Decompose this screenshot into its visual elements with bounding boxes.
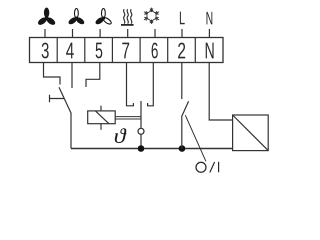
- terminal number 2: [178, 43, 185, 59]
- temperature sensor bellows box: [88, 111, 116, 124]
- fan selector switch blade: [59, 87, 71, 148]
- terminal top stubs: [45, 29, 209, 38]
- bellows diagonal: [95, 111, 109, 124]
- on-off switch actuator link: [185, 115, 206, 161]
- fan icon high speed (terminal 3): [37, 8, 57, 27]
- junction node below on-off switch: [179, 145, 186, 152]
- mechanical linkage double line: [115, 117, 141, 119]
- terminal number 7: [122, 43, 129, 59]
- terminal strip outline: [30, 38, 224, 63]
- transformer box: [233, 115, 269, 151]
- wire from terminal N to transformer: [209, 63, 232, 121]
- on-off label I: [218, 162, 220, 173]
- terminal number 4: [66, 43, 74, 59]
- wire from terminal 3 to selector contact: [44, 63, 61, 85]
- heating icon (terminal 7): [121, 9, 134, 25]
- terminal letter N: [206, 43, 214, 59]
- on-off knob circle O: [196, 162, 206, 172]
- terminal number 5: [96, 43, 103, 59]
- junction node below thermostat: [140, 134, 142, 148]
- fan selector manual actuator: [50, 95, 65, 103]
- label N (terminal N): [207, 12, 213, 25]
- bellows top stub: [100, 106, 102, 111]
- on-off label slash: [210, 162, 215, 173]
- bellows bottom stub: [100, 124, 102, 130]
- terminal number 3: [42, 43, 49, 59]
- wire from terminal 4 to selector contact: [71, 63, 73, 88]
- wire from terminal 7 to thermostat contact: [127, 63, 134, 106]
- fan icon low speed (terminal 5): [94, 9, 112, 26]
- label L (terminal 2): [180, 12, 185, 25]
- fan icon medium speed (terminal 4): [67, 9, 85, 26]
- temperature symbol theta: [115, 128, 127, 143]
- transformer diagonal: [233, 115, 269, 151]
- thermostat moving contact blade: [140, 101, 142, 128]
- bottom bus wire: [71, 148, 233, 150]
- wire from terminal 5 to selector contact: [86, 63, 100, 87]
- terminal number 6: [152, 43, 158, 59]
- wire from terminal 2 to on-off switch: [181, 63, 183, 100]
- on-off switch blade: [182, 101, 189, 148]
- thermostat contact circle: [138, 128, 144, 134]
- terminal dividers: [57, 38, 195, 63]
- wire from terminal 6 to thermostat contact: [148, 63, 154, 106]
- cooling snowflake icon (terminal 6): [144, 8, 159, 24]
